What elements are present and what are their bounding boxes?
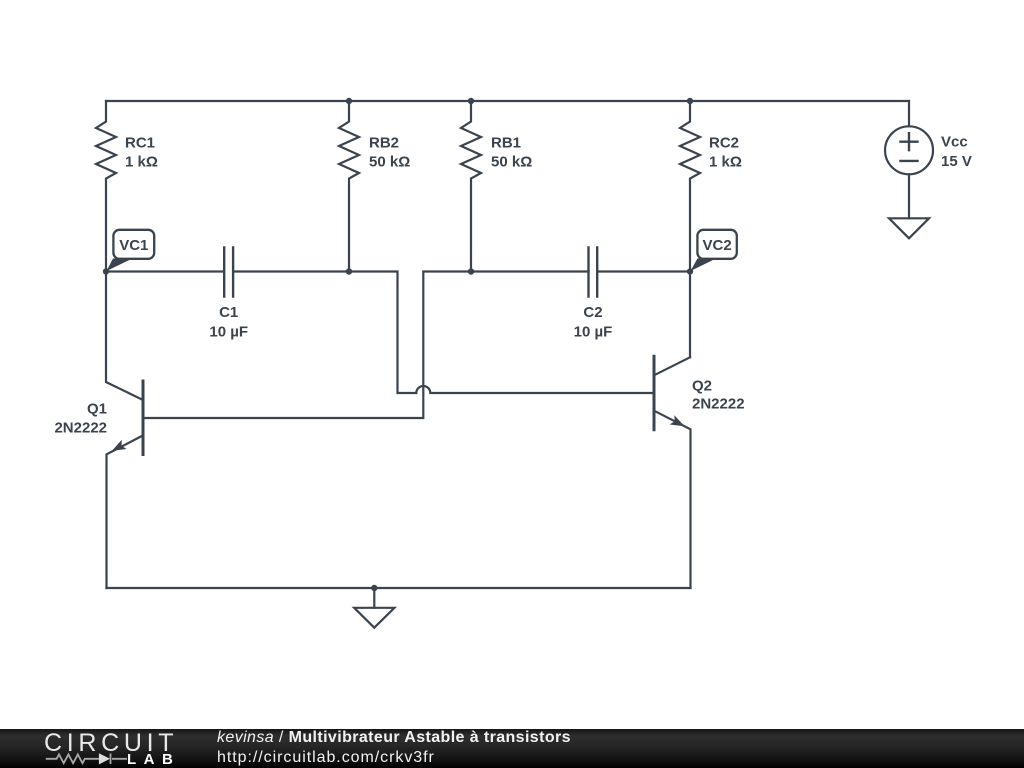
- logo diode triangle: [99, 753, 110, 764]
- wire bottom rail: [107, 587, 691, 589]
- junction dot mid RB2: [346, 268, 352, 274]
- wire C1 right to corner, down, and across to Q2 base with hop: [233, 272, 653, 394]
- wire C2 right to VC2 node: [597, 270, 690, 272]
- ground Vcc triangle: [889, 218, 929, 238]
- resistor RC2: [680, 101, 700, 272]
- wire VC1 to C1 left plate: [106, 270, 224, 272]
- wire top rail corner down to Vcc: [908, 101, 910, 126]
- logo diode bar: [110, 754, 112, 765]
- wire RB1/C2 corner down to Q1 base: [144, 272, 589, 419]
- source Vcc circle: [885, 126, 933, 174]
- logo resistor squiggle: [46, 754, 127, 763]
- node VC1 dot: [103, 268, 109, 274]
- node VC2 dot: [687, 268, 693, 274]
- transistor Q2 emitter arrow: [670, 415, 685, 426]
- node label VC2 pointer: [691, 259, 717, 272]
- transistor Q2 body: [654, 357, 691, 588]
- junction dot ground: [371, 585, 377, 591]
- transistor Q2 base bar: [653, 356, 656, 429]
- ground bottom triangle: [354, 608, 394, 628]
- transistor Q1 base bar: [142, 381, 145, 455]
- junction dot top RC2: [687, 98, 693, 104]
- node label VC1 box: [113, 230, 154, 259]
- resistor RC1: [96, 101, 116, 272]
- capacitor C2: [589, 248, 598, 297]
- transistor Q1 body: [106, 272, 143, 589]
- junction dot top RB2: [346, 98, 352, 104]
- transistor Q1 emitter arrow: [112, 440, 127, 451]
- junction dot top RB1: [468, 98, 474, 104]
- node label VC1 pointer: [107, 259, 133, 272]
- source Vcc plus sign: [901, 133, 918, 150]
- ground bottom stem: [373, 588, 375, 608]
- wire Vcc to ground: [908, 174, 910, 218]
- capacitor C1: [224, 248, 233, 297]
- source Vcc minus sign: [901, 160, 918, 162]
- node label VC2 box: [697, 230, 736, 259]
- wire VC2 node down to Q2 collector: [689, 272, 691, 358]
- junction dot mid RB1: [468, 268, 474, 274]
- resistor RB1: [461, 101, 481, 272]
- resistor RB2: [339, 101, 359, 272]
- wire top rail: [106, 100, 909, 102]
